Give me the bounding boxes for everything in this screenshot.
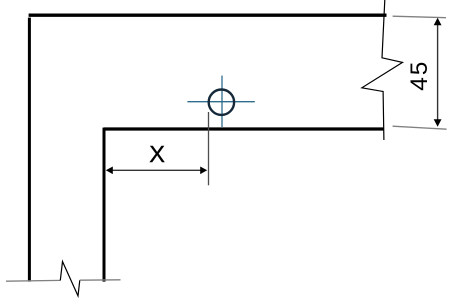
svg-text:X: X xyxy=(149,141,165,167)
svg-text:45: 45 xyxy=(406,60,433,91)
